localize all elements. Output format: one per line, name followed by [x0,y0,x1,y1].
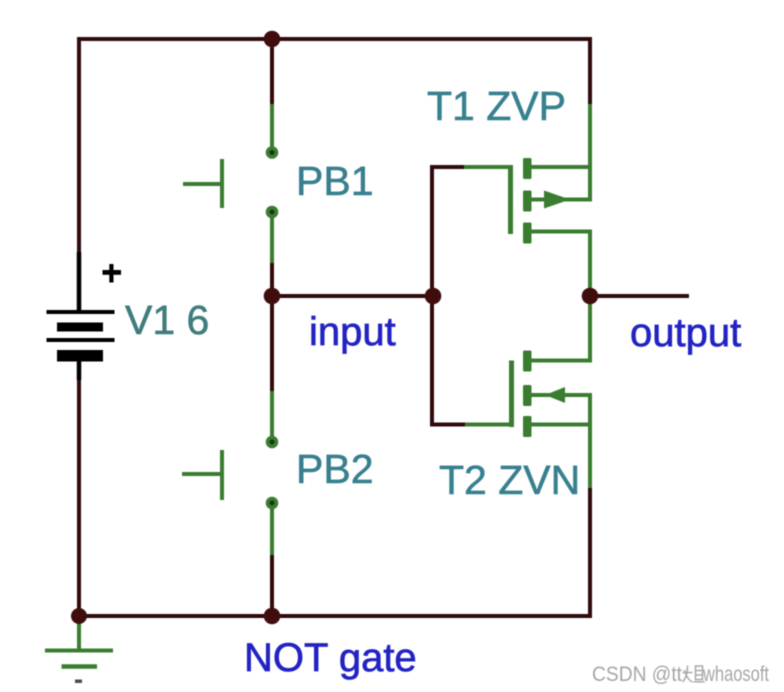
svg-text:NOT gate: NOT gate [244,636,417,680]
svg-text:input: input [309,310,396,354]
svg-text:V1 6: V1 6 [125,297,209,343]
svg-text:PB1: PB1 [296,158,374,204]
svg-text:CSDN @tt: CSDN @tt [592,663,682,686]
svg-text:output: output [630,311,741,355]
svg-text:whaosoft: whaosoft [702,663,769,686]
svg-text:T1 ZVP: T1 ZVP [427,83,566,129]
svg-text:PB2: PB2 [296,446,374,492]
svg-text:T2 ZVN: T2 ZVN [439,457,580,503]
